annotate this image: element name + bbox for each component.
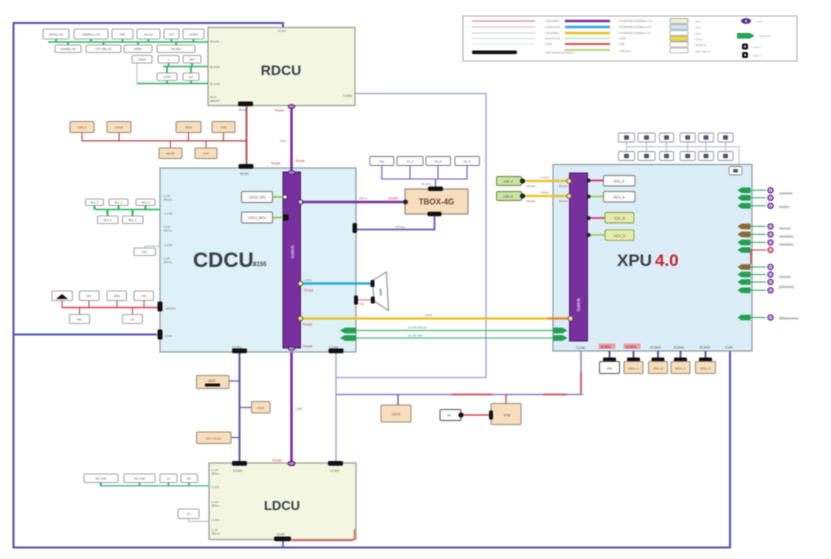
svg-text:SCAN5: SCAN5 xyxy=(700,346,711,350)
svg-text:USB xxxx: USB xxxx xyxy=(619,49,632,53)
node CMHP box xyxy=(107,122,131,133)
svg-text:USB (Reserved wires) x: USB (Reserved wires) x xyxy=(545,51,575,55)
svg-text:RLAN1: RLAN1 xyxy=(210,40,220,44)
node rdcu peripheral boxes row4 xyxy=(157,73,199,81)
svg-text:CANFD(2M): CANFD(2M) xyxy=(545,25,560,29)
connector LDCU DCAN top xyxy=(232,461,247,466)
svg-text:LAN: LAN xyxy=(296,407,303,411)
wire LAN ethernet CDCU to LDCU xyxy=(292,349,303,462)
svg-text:LVDS: LVDS xyxy=(619,37,626,41)
connector LDCU ICAN bottom xyxy=(274,537,291,542)
svg-text:Switch: Switch xyxy=(576,298,581,312)
switch bar U1 CDCU xyxy=(283,171,301,351)
camera cluster B xyxy=(738,223,794,253)
node BMS box xyxy=(197,376,240,389)
svg-text:Router: Router xyxy=(559,199,568,203)
svg-text:1-LIN: 1-LIN xyxy=(212,468,218,472)
node MCU_B box xyxy=(587,230,635,241)
node SOC_A box xyxy=(587,176,636,187)
node TBOX antenna box A1 xyxy=(370,157,394,166)
svg-text:xxxxx: xxxxx xyxy=(695,37,703,41)
node lin box L4 xyxy=(98,216,119,224)
camera cluster A xyxy=(738,187,793,209)
svg-text:AAP: AAP xyxy=(203,152,209,156)
connector CDCU DCAN bottom xyxy=(232,349,247,354)
svg-text:UPCAN: UPCAN xyxy=(165,307,176,311)
svg-text:LDCU: LDCU xyxy=(264,498,300,513)
node MCU_A box xyxy=(587,192,636,203)
svg-text:ETHERNET(100Base-Tx): ETHERNET(100Base-Tx) xyxy=(619,31,651,35)
svg-text:ML3_S: ML3_S xyxy=(141,201,149,205)
svg-text:LG: LG xyxy=(167,477,171,481)
svg-text:4G_P: 4G_P xyxy=(463,160,470,164)
wire TBOX antenna bus xyxy=(382,166,467,187)
node lin box L1 xyxy=(86,199,104,206)
node SOC_B box xyxy=(587,213,635,224)
svg-text:1-LIN2: 1-LIN2 xyxy=(165,212,173,216)
node lin box L2 xyxy=(109,199,128,206)
node CDCU_DIS box xyxy=(242,192,288,203)
svg-text:DM / HLDC: DM / HLDC xyxy=(206,437,222,441)
svg-text:4G_A: 4G_A xyxy=(406,160,413,164)
wire RDCU to CDCU ethernet xyxy=(271,105,306,171)
svg-text:GNL: GNL xyxy=(379,160,385,164)
svg-text:xxxxxxxx: xxxxxxxx xyxy=(779,192,793,196)
node CMCA box xyxy=(70,122,94,133)
svg-text:xxxx x: xxxx x xyxy=(753,45,761,49)
svg-text:(Micro): (Micro) xyxy=(212,532,220,536)
svg-text:xxxx / 5G xx: xxxx / 5G xx xyxy=(695,50,711,54)
svg-text:360xxxxxxxx: 360xxxxxxxx xyxy=(779,317,799,321)
svg-text:SOC_B: SOC_B xyxy=(614,217,625,221)
svg-text:ML4_S: ML4_S xyxy=(103,218,111,222)
svg-text:2-LIN: 2-LIN xyxy=(164,225,170,229)
node scan box S5 xyxy=(696,362,716,374)
svg-text:MOST5 LIN: MOST5 LIN xyxy=(545,37,560,41)
svg-text:ML2_S: ML2_S xyxy=(114,201,122,205)
block RDCU xyxy=(208,28,355,106)
wire AVM green line xyxy=(340,334,568,341)
wire LDCU teal bus xyxy=(100,483,209,486)
svg-text:DSL: DSL xyxy=(141,294,147,298)
wire HDMI yellow line xyxy=(298,313,573,327)
svg-text:USB_B: USB_B xyxy=(503,195,513,199)
svg-text:RGN: RGN xyxy=(280,139,287,143)
node SRD box xyxy=(212,122,235,133)
node TBOX antenna box A2 xyxy=(397,157,423,166)
wire TPCAN xyxy=(353,212,442,233)
node GPS box xyxy=(381,395,411,423)
svg-text:PB-LV: PB-LV xyxy=(359,197,367,201)
svg-text:1-LIN2: 1-LIN2 xyxy=(212,485,220,489)
svg-text:4G_M: 4G_M xyxy=(434,160,442,164)
svg-text:MCU_B: MCU_B xyxy=(614,234,625,238)
block XPU xyxy=(553,165,752,352)
svg-text:xxxx x: xxxx x xyxy=(753,54,761,58)
svg-text:BCAN: BCAN xyxy=(240,172,250,176)
svg-text:MRDF: MRDF xyxy=(166,152,175,156)
node upcan box U3 xyxy=(107,291,127,301)
node CDCU_MCU box xyxy=(242,212,289,223)
svg-text:A2B: A2B xyxy=(359,302,364,306)
svg-text:RLAN3: RLAN3 xyxy=(210,82,220,86)
node MRDF box xyxy=(159,148,182,159)
svg-text:MCU_A: MCU_A xyxy=(613,196,625,200)
svg-text:MRA_B: MRA_B xyxy=(653,367,663,371)
svg-text:SPKR(L,LR): SPKR(L,LR) xyxy=(49,33,63,37)
connector CDCU CCAN bottom xyxy=(329,349,344,354)
svg-text:BLCAN: BLCAN xyxy=(422,182,431,186)
wire RLAN3 green bus xyxy=(137,63,208,84)
svg-text:ML5_S: ML5_S xyxy=(128,218,136,222)
svg-text:BMS: BMS xyxy=(209,379,216,383)
svg-text:ICAN: ICAN xyxy=(165,334,172,338)
svg-text:TBOX-4G: TBOX-4G xyxy=(419,198,455,207)
legend box xyxy=(463,16,797,61)
wire XPU top bracket xyxy=(627,142,740,166)
node scan box S3 xyxy=(649,362,668,374)
node PB box xyxy=(440,410,464,421)
wire RLAN1 green bus xyxy=(48,39,208,45)
svg-text:Router: Router xyxy=(527,199,536,203)
svg-text:ICAN: ICAN xyxy=(277,533,285,537)
svg-text:Router: Router xyxy=(273,459,284,463)
svg-text:RAL(D): RAL(D) xyxy=(144,33,153,37)
svg-text:DCAN: DCAN xyxy=(233,469,243,473)
svg-text:Router: Router xyxy=(389,197,400,201)
svg-text:RRL: RRL xyxy=(77,318,83,322)
node ldcu box B2 xyxy=(124,474,155,483)
svg-text:ALT: ALT xyxy=(189,75,194,79)
svg-text:HDMI: HDMI xyxy=(425,313,432,317)
svg-text:(Micro): (Micro) xyxy=(212,504,220,508)
wire LVDS cyan line xyxy=(298,278,372,293)
camera cluster C xyxy=(738,264,795,294)
node upcan box U4 xyxy=(134,291,154,301)
svg-text:(Micro): (Micro) xyxy=(212,472,220,476)
connector RDCU BCAN xyxy=(238,102,253,113)
connector LDCU ethernet top xyxy=(273,459,296,466)
svg-text:SCAN2: SCAN2 xyxy=(626,345,637,349)
node lone box FML xyxy=(134,246,160,256)
svg-text:xxxxx(xx): xxxxx(xx) xyxy=(779,243,793,247)
svg-text:FML: FML xyxy=(142,250,148,254)
svg-text:OTT DR(L,W): OTT DR(L,W) xyxy=(96,47,112,51)
svg-text:SW&BFL(L,LR): SW&BFL(L,LR) xyxy=(82,33,100,37)
svg-text:CAN(250K): CAN(250K) xyxy=(545,31,559,35)
svg-text:DWT: DWT xyxy=(189,58,195,62)
svg-text:LVDS: LVDS xyxy=(545,42,552,46)
svg-text:RDM: RDM xyxy=(185,126,192,130)
svg-text:WWL: WWL xyxy=(114,294,121,298)
svg-text:1-LIN: 1-LIN xyxy=(212,528,218,532)
svg-text:MRA_A: MRA_A xyxy=(628,367,638,371)
svg-text:CMCA: CMCA xyxy=(78,126,87,130)
node XPU top small box xyxy=(729,167,742,176)
svg-text:BCAN: BCAN xyxy=(239,108,249,112)
node XPU key row2 xyxy=(618,152,733,161)
svg-text:WPML: WPML xyxy=(134,47,142,51)
node lin box L3 xyxy=(136,199,155,206)
node scan box S4 xyxy=(671,362,690,374)
node scan box S1 xyxy=(600,362,620,374)
svg-text:Router: Router xyxy=(303,345,314,349)
svg-text:ML1_S: ML1_S xyxy=(90,201,98,205)
svg-text:1-LIN: 1-LIN xyxy=(164,257,170,261)
connector CDCU UPCAN left xyxy=(158,302,163,312)
wire LDCU red inner xyxy=(292,529,355,541)
svg-text:1-LIN: 1-LIN xyxy=(212,500,218,504)
svg-text:4G/5G xx: 4G/5G xx xyxy=(695,43,707,47)
svg-text:OBU: OBU xyxy=(606,367,613,371)
block CDCU xyxy=(160,168,356,352)
node ldcu box B3 xyxy=(160,474,177,483)
node USB_B box xyxy=(497,191,572,204)
node rdcu peripheral boxes row3 xyxy=(132,56,201,64)
connector CDCU ICAN left xyxy=(158,330,163,340)
svg-text:ETHERNET(1000Base-T1): ETHERNET(1000Base-T1) xyxy=(619,19,653,23)
node ldcu box B1 xyxy=(84,474,118,483)
svg-text:xxxx: xxxx xyxy=(757,20,763,24)
svg-text:CCAN: CCAN xyxy=(330,469,340,473)
svg-text:Router: Router xyxy=(559,184,568,188)
svg-text:RMOST: RMOST xyxy=(210,99,220,103)
svg-text:Switch: Switch xyxy=(290,245,295,259)
svg-text:MRA_C: MRA_C xyxy=(675,367,686,371)
node XPU key row1 xyxy=(618,133,733,142)
svg-text:TPCAN: TPCAN xyxy=(395,225,405,229)
node DM-HLDC box xyxy=(197,432,240,444)
node TBOX antenna box A4 xyxy=(455,157,480,166)
wire XPU SCAN stubs xyxy=(603,351,712,362)
svg-text:ICAN: ICAN xyxy=(725,346,733,350)
node ldcu lone box AT xyxy=(178,509,209,521)
wire DCAN CDCU to LDCU xyxy=(239,353,241,462)
svg-text:AT: AT xyxy=(187,512,191,516)
block LDCU xyxy=(209,463,356,540)
svg-text:PB: PB xyxy=(447,414,451,418)
svg-text:SCAN1: SCAN1 xyxy=(601,345,612,349)
svg-text:U-BGN: U-BGN xyxy=(540,191,549,195)
node upcan box U5 xyxy=(70,315,90,324)
svg-text:GPS: GPS xyxy=(392,412,401,417)
switch bar U2 XPU xyxy=(570,173,588,341)
wire UPCAN red bus xyxy=(62,301,158,315)
svg-text:1-LIN4: 1-LIN4 xyxy=(165,243,173,247)
svg-text:xxxx: xxxx xyxy=(695,26,701,30)
svg-text:Router: Router xyxy=(527,184,536,188)
svg-text:CAN(500K): CAN(500K) xyxy=(545,19,559,23)
svg-text:xxxx: xxxx xyxy=(695,20,701,24)
svg-text:UWL: UWL xyxy=(86,294,92,298)
connector LDCU CCAN top xyxy=(328,461,343,466)
node USB_A box xyxy=(497,176,572,189)
svg-text:xxxxxxx: xxxxxxx xyxy=(779,275,791,279)
node AAP box xyxy=(195,148,217,159)
svg-text:CDCU_DIS: CDCU_DIS xyxy=(249,196,265,200)
svg-text:CCAN: CCAN xyxy=(343,94,353,98)
svg-text:ML CAM: ML CAM xyxy=(96,477,107,481)
wire CDCU LIN green bus xyxy=(95,206,161,217)
svg-text:.8155: .8155 xyxy=(252,262,268,268)
wire XPU edge red segment xyxy=(750,251,752,265)
svg-text:xx xxx xxx: xx xxx xxx xyxy=(408,334,423,338)
svg-text:SCAN3: SCAN3 xyxy=(650,346,661,350)
svg-text:AMP: AMP xyxy=(379,288,383,296)
svg-text:SCAN4: SCAN4 xyxy=(674,346,685,350)
svg-text:(Micro): (Micro) xyxy=(164,198,172,202)
svg-text:(Micro): (Micro) xyxy=(164,229,172,233)
svg-text:A2B: A2B xyxy=(619,42,624,46)
svg-text:U-AGN: U-AGN xyxy=(540,176,549,180)
svg-text:VCAN: VCAN xyxy=(278,29,286,33)
svg-text:1-LIN3: 1-LIN3 xyxy=(212,518,220,522)
svg-text:xxxxxxx: xxxxxxx xyxy=(779,227,791,231)
svg-text:ML CAM: ML CAM xyxy=(134,477,145,481)
node IPB box xyxy=(464,395,522,425)
svg-text:MC: MC xyxy=(187,477,191,481)
svg-text:Router: Router xyxy=(296,159,307,163)
svg-text:LHT: LHT xyxy=(169,33,174,37)
wire BCAN red trunk xyxy=(246,107,248,165)
svg-text:ETHERNET(100Base-T1): ETHERNET(100Base-T1) xyxy=(619,25,651,29)
svg-text:CMHP: CMHP xyxy=(115,126,124,130)
svg-text:CDCU: CDCU xyxy=(193,249,254,272)
wire CDCU to TBOX ethernet xyxy=(298,197,405,205)
connector CDCU BCAN top xyxy=(239,164,254,169)
svg-text:4.0: 4.0 xyxy=(655,251,679,270)
svg-text:Router: Router xyxy=(275,109,286,113)
node IPLM box xyxy=(240,402,271,414)
svg-text:SE (RH): SE (RH) xyxy=(171,47,181,51)
svg-text:(Micro): (Micro) xyxy=(164,260,172,264)
svg-text:SUNR: SUNR xyxy=(163,75,170,79)
svg-text:xx xxx xxx xx: xx xxx xxx xx xyxy=(408,326,427,330)
node TBOX antenna box A3 xyxy=(426,157,451,166)
node ldcu box B4 xyxy=(181,474,198,483)
block TBOX-4G xyxy=(403,187,468,215)
wire A2B link xyxy=(354,296,371,307)
svg-text:Router: Router xyxy=(304,289,315,293)
svg-text:LVL: LVL xyxy=(130,318,135,322)
speaker AMP xyxy=(371,272,389,311)
node upcan box U1 xyxy=(52,291,73,301)
node rdcu peripheral boxes row1 xyxy=(43,29,204,39)
svg-text:USB_A: USB_A xyxy=(503,180,513,184)
svg-text:CCAN: CCAN xyxy=(576,346,586,350)
svg-text:xxxxx xxx: xxxxx xxx xyxy=(759,34,772,38)
svg-text:IPB: IPB xyxy=(504,413,511,418)
svg-text:Router: Router xyxy=(271,162,282,166)
svg-text:SOC_A: SOC_A xyxy=(614,180,626,184)
node upcan box U6 xyxy=(123,315,143,324)
svg-text:SRD: SRD xyxy=(220,126,227,130)
node scan box S2 xyxy=(624,362,643,374)
svg-text:SHADE(L,W): SHADE(L,W) xyxy=(60,47,75,51)
svg-text:xxxxx(xx): xxxxx(xx) xyxy=(779,235,793,239)
wire CCAN net xyxy=(336,94,583,462)
svg-text:xxxx: xxxx xyxy=(695,32,701,36)
svg-text:CDCU_MCU: CDCU_MCU xyxy=(248,216,267,220)
node upcan box U2 xyxy=(80,291,100,301)
svg-text:1-LIN: 1-LIN xyxy=(164,194,170,198)
wire BCAN orange cluster bus xyxy=(82,133,247,149)
node lin box L5 xyxy=(123,216,144,224)
svg-text:Router: Router xyxy=(303,323,314,327)
svg-text:AMP: AMP xyxy=(120,33,126,37)
svg-text:HL(RH): HL(RH) xyxy=(189,33,198,37)
svg-text:RDCU: RDCU xyxy=(261,62,301,78)
camera cluster D xyxy=(738,314,799,320)
node RDM box xyxy=(176,122,201,133)
svg-text:RADR: RADR xyxy=(138,58,145,62)
svg-text:XPU: XPU xyxy=(617,251,652,270)
svg-text:xxxxxx: xxxxxx xyxy=(779,205,789,209)
svg-text:IPLM: IPLM xyxy=(257,406,265,410)
svg-text:MRA_D: MRA_D xyxy=(700,367,711,371)
wire RLAN2 green bus xyxy=(163,63,208,73)
svg-text:LVDS: LVDS xyxy=(304,278,312,282)
svg-text:RLAN2: RLAN2 xyxy=(210,65,220,69)
node rdcu peripheral boxes row2 xyxy=(55,45,195,53)
wire DVR green line xyxy=(340,326,568,334)
svg-text:(xx/xx/x/x): (xx/xx/x/x) xyxy=(779,285,794,289)
